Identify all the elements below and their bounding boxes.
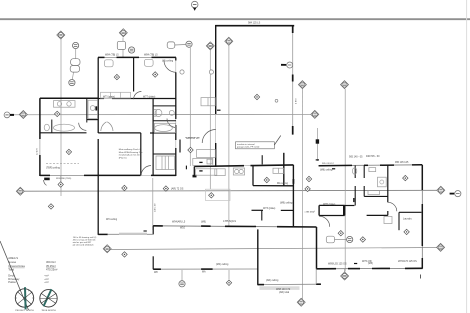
circle marker x189 <box>186 41 192 47</box>
grid marker A3 <box>206 42 214 50</box>
veranda front seg2 <box>201 268 213 270</box>
svg-text:140 x 90: 140 x 90 <box>155 203 157 212</box>
garage top wall <box>215 25 294 27</box>
kitchen fridge cabinet <box>197 150 216 158</box>
br south seg3 <box>372 267 390 269</box>
left wing top wall seg1 <box>98 56 105 58</box>
small diamond bedroom right 1 <box>360 237 365 242</box>
small diamond garage <box>254 94 259 99</box>
right edge arrow dash <box>450 193 455 195</box>
svg-text:W30 990 (TBD): W30 990 (TBD) <box>56 178 71 180</box>
left outer wall lower <box>39 155 41 176</box>
far left arrow dash <box>10 114 14 116</box>
patio slab seg2 <box>316 283 321 285</box>
vertical grid line x302.6 <box>302 118 304 299</box>
dining nook wall west <box>252 209 264 211</box>
spine wall black block <box>95 106 98 110</box>
svg-text:TRUE NORTH: TRUE NORTH <box>41 310 56 312</box>
dimension line B (y~191) <box>25 189 438 192</box>
ensuite divider x364 lower <box>363 186 365 196</box>
svg-text:(TBR) ceiling: (TBR) ceiling <box>46 167 60 170</box>
rw top seg3 <box>380 164 394 166</box>
bath door arc <box>79 123 87 131</box>
south wall seg1 <box>153 225 163 227</box>
veranda front seg1 <box>153 268 161 270</box>
island dash <box>199 161 202 163</box>
wing bottom wall seg1 <box>40 174 50 176</box>
south wall seg4 <box>277 226 317 228</box>
wc room east thick wall <box>343 205 345 215</box>
svg-text:(M4) ceiling: (M4) ceiling <box>216 263 229 266</box>
svg-text:Main walkway Porch &: Main walkway Porch & <box>119 148 142 151</box>
svg-text:(AR) total: (AR) total <box>279 291 290 294</box>
grid marker A1 <box>57 31 65 39</box>
interior wall y185.6 <box>253 185 293 187</box>
project north diag 2 <box>18 292 32 305</box>
entry closet stub wall <box>179 140 181 153</box>
svg-text:995 145 125: 995 145 125 <box>395 161 409 164</box>
dimension line C (y~248.5) <box>110 248 437 250</box>
tick x186 kitchen <box>185 166 187 170</box>
svg-text:(M8) ceiling: (M8) ceiling <box>320 169 333 172</box>
bath3 west wall <box>354 166 356 179</box>
svg-text:WTI (plate): WTI (plate) <box>103 95 115 98</box>
veranda corner wall <box>152 256 154 269</box>
hall jamb on x293 wall <box>292 179 294 184</box>
stem bottom circle182 <box>181 270 183 281</box>
shower south wall <box>87 119 98 121</box>
DOOR ARCS <box>44 61 397 227</box>
pantry east wall <box>283 153 285 186</box>
black post near garage <box>316 139 319 143</box>
bedroom divider door arc <box>134 92 142 100</box>
west deck wall thin <box>108 233 154 235</box>
bottom circle marker x182 <box>179 281 185 287</box>
wc basin <box>169 110 174 115</box>
svg-text:W94(AR) L5: W94(AR) L5 <box>172 220 186 223</box>
spine wall x98 lower <box>97 176 99 235</box>
small diamond lineB 1 <box>122 185 127 190</box>
AC tag circle <box>347 236 353 242</box>
bath2 basin <box>155 125 173 132</box>
project north circle <box>15 289 33 307</box>
vertical stem x123 <box>122 38 124 58</box>
entry cabinet divider <box>207 98 209 106</box>
bedroom1 fan <box>105 60 114 67</box>
vertical stem x72 pill-to-circle <box>72 73 73 80</box>
pantry shelf line <box>277 168 279 173</box>
ensuite basin <box>369 168 376 172</box>
svg-text:PROJECT NORTH: PROJECT NORTH <box>15 310 34 312</box>
circle marker x75 <box>73 42 79 48</box>
true north horiz <box>40 297 57 299</box>
shower rose <box>90 106 95 111</box>
svg-text:mid as per wall W7: mid as per wall W7 <box>73 241 92 244</box>
small diamond bed1 <box>114 74 119 79</box>
living dashed ceiling line <box>46 162 79 164</box>
tick x333 <box>332 168 335 170</box>
svg-text:Patios: Patios <box>8 280 16 284</box>
ensuite shower rose <box>380 180 384 184</box>
vertical grid line x61 <box>60 39 62 196</box>
hall light circle 2 <box>209 70 213 74</box>
left wing top wall seg2 <box>117 56 140 58</box>
garage right wall jamb 1 <box>292 26 294 33</box>
ensuite door arc <box>388 202 397 211</box>
WIR door arc <box>141 166 151 176</box>
callout box garage <box>236 142 275 149</box>
ensuite east wall <box>387 165 389 202</box>
shower west wall <box>86 98 88 122</box>
wc toilet tank <box>154 110 156 117</box>
wc room top wall <box>319 204 345 206</box>
deck gray band <box>119 233 147 235</box>
grid marker K1 <box>298 81 306 89</box>
entry cabinet <box>201 98 215 106</box>
interior wall x293.4 <box>292 165 294 227</box>
left wing top wall seg3 <box>152 56 177 58</box>
garage right wall jamb 3 <box>292 126 294 135</box>
vertical grid line x317.5 (post line) <box>317 128 319 161</box>
veranda front edge thin <box>153 268 258 270</box>
true north circle <box>40 290 57 307</box>
br south seg4 <box>405 267 423 269</box>
family door arc x319 <box>319 216 330 227</box>
rw top seg2 <box>364 164 368 166</box>
bath bottom wall <box>41 132 87 134</box>
grid marker K2 <box>341 81 349 89</box>
small diamond near AC <box>338 231 343 236</box>
svg-text:1785 SQ/LS: 1785 SQ/LS <box>223 220 236 223</box>
bath top wall <box>40 97 98 99</box>
link line pill to circle <box>175 44 186 47</box>
grid marker A2 <box>119 29 127 37</box>
pill stack 1 <box>71 59 80 66</box>
patio east thin wall <box>315 269 317 284</box>
small diamond bed2 <box>153 72 158 77</box>
spine wall x98 upper <box>97 57 99 133</box>
jamb dashes above <box>353 198 355 202</box>
store room top wall <box>98 132 141 134</box>
bath wc divider <box>51 120 53 133</box>
ensuite divider x364 <box>363 165 365 178</box>
hall light circle 1 <box>180 70 184 74</box>
svg-text:ARROW LLT: ARROW LLT <box>186 137 200 140</box>
patio slab seg1 <box>258 284 264 286</box>
garage door circle marker <box>287 62 293 68</box>
right wing west wall <box>316 227 318 269</box>
svg-text:x BB (M4)²: x BB (M4)² <box>305 211 316 214</box>
svg-text:W84 (TB) L5: W84 (TB) L5 <box>144 53 158 56</box>
pantry west wall <box>261 155 263 164</box>
spine wall x98 mid <box>97 139 99 176</box>
svg-text:~m²: ~m² <box>44 281 49 284</box>
svg-text:(Plan b): (Plan b) <box>119 157 127 159</box>
island bench <box>193 158 213 165</box>
kitchen north wall east <box>251 164 294 167</box>
stem diamond302 <box>301 89 303 118</box>
sink bowl 2 <box>239 169 243 173</box>
closet divider 1 <box>110 92 112 98</box>
rounded square marker x121 <box>117 41 125 49</box>
right edge circle marker <box>455 191 461 197</box>
small diamond bedroom right 2 <box>404 229 409 234</box>
small diamond deck <box>48 204 53 209</box>
small diamond bottom veranda <box>226 280 231 285</box>
vertical grid line x190.3 <box>189 48 191 167</box>
small diamond dining <box>264 177 269 182</box>
island sink <box>207 159 212 164</box>
svg-text:Covered Area: Covered Area <box>8 264 25 268</box>
closet divider 2 <box>120 92 122 98</box>
wc room bottom wall <box>319 215 345 217</box>
ensuite shower <box>378 177 387 187</box>
circle marker dark x131 <box>129 47 135 53</box>
svg-text:984 125 LS: 984 125 LS <box>248 21 261 24</box>
stem W4 diamond x60.7 <box>60 176 62 182</box>
south wall seg2 <box>201 225 211 227</box>
wc strip wall <box>153 105 176 107</box>
garage door arc <box>202 130 216 144</box>
COMPASS <box>15 287 57 312</box>
left wing right wall thin base <box>175 57 177 176</box>
small diamond on section line <box>55 111 60 116</box>
wc room west wall <box>318 205 320 215</box>
WIR shelves <box>156 156 175 170</box>
bath2 north wall <box>153 120 176 122</box>
grid marker A4 <box>225 37 233 45</box>
vertical grid line x345.2 <box>344 89 346 272</box>
tick x145 south <box>144 230 147 232</box>
grid marker B left <box>16 187 24 195</box>
svg-text:35.25m²: 35.25m² <box>46 264 56 268</box>
patio hatch band <box>260 286 300 290</box>
hallway double door arc 1 <box>101 122 107 131</box>
WALLS <box>40 25 423 290</box>
garage left door thin line <box>215 114 217 143</box>
garage right wall thin <box>292 26 294 135</box>
right edge scribble <box>456 193 460 195</box>
section line A (y~114.5) <box>10 113 312 116</box>
vertical grid line x152.8 <box>152 178 154 230</box>
top border line <box>0 18 470 20</box>
AC rounded rect <box>326 236 334 243</box>
wing bottom wall seg2 <box>84 174 141 176</box>
grid marker C left <box>103 245 111 253</box>
br south seg2 <box>348 268 360 270</box>
bath3 west wall lower <box>354 186 356 206</box>
svg-text:985 OR 457: 985 OR 457 <box>322 163 335 165</box>
bath1 toilet <box>44 124 49 131</box>
WIR divider wall <box>153 153 176 155</box>
true north diag 1 <box>41 293 56 303</box>
svg-text:House: House <box>8 260 16 264</box>
grid marker B right <box>437 186 445 194</box>
svg-text:Driveway: Driveway <box>8 277 20 281</box>
small diamond bed3 <box>66 149 71 154</box>
balloon marker top <box>191 1 198 8</box>
br south seg1 <box>317 268 337 270</box>
grid marker section right <box>311 110 319 118</box>
AREAS table <box>8 256 57 284</box>
kitchen west end wall <box>193 167 195 177</box>
project north needle <box>24 287 27 309</box>
project north ticks <box>15 288 33 298</box>
vertical grid line x228.9 <box>228 46 230 227</box>
svg-text:(AR) ceiling: (AR) ceiling <box>266 279 279 282</box>
svg-text:140 x 45 framing wall @: 140 x 45 framing wall @ <box>73 236 97 239</box>
small diamond below C line <box>122 252 127 257</box>
AC link line <box>335 239 347 241</box>
svg-text:450 crs legs @ 500 mb: 450 crs legs @ 500 mb <box>73 238 96 241</box>
wing bottom wall seg3 <box>151 174 176 176</box>
svg-text:(M9): (M9) <box>201 220 206 223</box>
grid marker bottom center <box>297 298 305 306</box>
svg-text:(AR) 72 OS: (AR) 72 OS <box>171 188 184 191</box>
counter dash <box>199 170 202 172</box>
kitchen west foot blob <box>193 175 197 178</box>
bottom-right south wall thin <box>317 267 423 270</box>
left wing right wall seg2 <box>175 72 177 119</box>
left outer wall upper <box>39 98 41 139</box>
svg-text:12 470: 12 470 <box>37 148 39 155</box>
hall door arc on x175.8 <box>167 119 176 128</box>
bedroom divider wall <box>133 57 135 91</box>
svg-text:W73 (plate): W73 (plate) <box>263 207 276 210</box>
svg-text:meals/walk-in min 2m: meals/walk-in min 2m <box>119 155 140 157</box>
shower tray <box>88 100 98 119</box>
interior wall x253 <box>252 166 254 186</box>
svg-text:Laundry: Laundry <box>403 217 412 220</box>
bath1 tub <box>54 124 75 131</box>
small diamond kitchen line <box>188 147 193 152</box>
small diamond W4 <box>58 182 63 187</box>
small diamond lineB 3 <box>305 186 310 191</box>
kitchen sink unit <box>233 168 244 175</box>
right outer wall thin <box>421 165 423 269</box>
svg-text:Main WIRs/Framing 2db: Main WIRs/Framing 2db <box>119 151 143 154</box>
left wing right wall seg1 <box>175 57 177 60</box>
left wing right wall seg4 <box>175 148 177 176</box>
bedroom1 south wall seg2 <box>112 98 176 100</box>
dining nook wall east <box>281 209 294 211</box>
svg-text:W05 (plate): W05 (plate) <box>323 203 336 206</box>
circle marker far left section <box>4 112 10 118</box>
hallway dashed line <box>185 137 200 139</box>
right outer seg3 <box>421 258 423 269</box>
vertical stem x75.7 <box>75 49 77 59</box>
svg-text:470.25m²: 470.25m² <box>46 268 57 272</box>
garage marker scribble <box>288 64 291 66</box>
grid marker C right <box>437 243 445 251</box>
tick x317 <box>316 159 319 161</box>
corner blob bottom-left wing <box>44 178 50 181</box>
step vertical x153.2 <box>152 226 154 235</box>
stem diamond344.6,275 <box>344 269 346 272</box>
right wing top wall thin <box>319 164 423 167</box>
bedroom2 fan <box>145 59 154 66</box>
leader curve near W4 <box>44 180 47 185</box>
garage right wall jamb 2 <box>292 75 294 82</box>
diagonal leader to compass <box>0 241 29 310</box>
vertical grid line x210.3 <box>209 50 211 189</box>
ensuite east wall lower <box>387 211 389 215</box>
B-line label box <box>206 189 231 200</box>
pill stack 2 <box>70 66 79 73</box>
stem diamond229 bottom <box>228 270 230 280</box>
svg-text:940/745 - 60: 940/745 - 60 <box>366 155 380 158</box>
garage left wall upper <box>215 25 217 114</box>
wing bottom window thin <box>50 174 84 176</box>
grid marker bottom right wing <box>341 272 349 280</box>
south wall thin base (y~226) <box>153 226 316 227</box>
ensuite toilet <box>352 168 356 174</box>
vanity basin 2 <box>67 102 71 106</box>
south wall seg3 <box>225 225 256 227</box>
svg-text:(M) ceiling: (M) ceiling <box>162 60 174 63</box>
svg-text:Total: Total <box>8 268 14 272</box>
small diamond family <box>306 176 311 181</box>
west deck wall seg <box>98 233 108 235</box>
svg-text:W10: W10 <box>180 227 186 230</box>
circle marker x72 <box>69 80 75 86</box>
WIR shelf line 2 <box>168 156 170 170</box>
stem for balloon at top <box>194 8 196 11</box>
small diamond lineB 2 <box>163 186 168 191</box>
dash below br corner <box>420 275 422 279</box>
svg-text:W3 ceiling: W3 ceiling <box>106 218 118 221</box>
svg-text:(M9) ceiling: (M9) ceiling <box>280 202 293 205</box>
svg-text:MA: MA <box>202 271 206 274</box>
bath2 vanity <box>155 123 176 133</box>
left outer wall window <box>39 139 41 155</box>
hall wall to bath <box>345 205 355 207</box>
right outer seg2 <box>421 204 423 246</box>
svg-text:W76 (26): W76 (26) <box>362 260 372 263</box>
svg-text:2870/176 125 OS: 2870/176 125 OS <box>398 260 417 263</box>
wc toilet <box>155 109 162 116</box>
svg-text:W77 (plate): W77 (plate) <box>143 95 156 98</box>
rw top seg4 <box>412 164 422 166</box>
bedroom1 south door thin <box>104 98 112 100</box>
vanity basin 1 <box>57 102 61 106</box>
garage marker dash <box>281 64 286 66</box>
small diamond in label box <box>209 193 214 198</box>
WIR shelf line 1 <box>161 156 163 170</box>
sink bowl 1 <box>235 169 239 173</box>
svg-text:garage walls, FF noted: garage walls, FF noted <box>237 146 260 149</box>
svg-text:Deck: Deck <box>8 273 15 277</box>
left wing top wall thin base <box>98 56 176 58</box>
bath2 south wall <box>150 132 176 134</box>
washer rect <box>384 217 392 224</box>
true north needle <box>44 289 52 306</box>
laundry west wall <box>398 212 400 230</box>
project north diag 1 <box>17 292 32 305</box>
store room east wall <box>140 133 142 176</box>
garage wall tick <box>217 109 221 111</box>
balloon scribble <box>193 4 197 6</box>
laundry top wall <box>399 211 421 213</box>
ensuite south wall <box>367 214 388 216</box>
tiny circle x276 <box>275 99 278 102</box>
linen rect <box>368 191 380 195</box>
true north diag 2 <box>41 294 55 304</box>
pantry shelves <box>273 168 284 173</box>
grid marker left section <box>19 111 27 119</box>
right outer seg1 <box>421 165 423 190</box>
WIR west wall <box>152 99 154 177</box>
